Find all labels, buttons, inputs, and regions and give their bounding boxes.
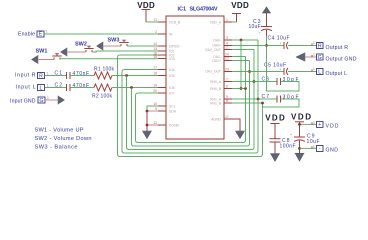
wire VDD_B to VDD [146, 21, 158, 23]
svg-text:1: 1 [47, 72, 49, 76]
wire C1 to R1 [70, 75, 94, 77]
svg-text:IO6: IO6 [169, 86, 175, 90]
wire R1 to IO5 [112, 75, 158, 77]
svg-text:2: 2 [155, 30, 157, 34]
wire Input R to C1 [45, 75, 67, 77]
svg-text:SCL: SCL [169, 105, 176, 109]
svg-text:C7: C7 [262, 94, 270, 100]
wire SCL corner [147, 106, 158, 111]
svg-text:17: 17 [225, 115, 229, 119]
svg-text:Output R: Output R [326, 45, 349, 51]
ground AGND arrow [235, 131, 245, 139]
svg-text:G: G [318, 55, 322, 61]
svg-text:VDD: VDD [137, 1, 155, 10]
svg-text:+: + [280, 42, 282, 46]
resistor R1 100k [94, 67, 115, 80]
IC1 right pin names [205, 21, 222, 122]
svg-text:1: 1 [47, 84, 49, 88]
svg-text:OA1+: OA1+ [212, 59, 221, 63]
svg-text:VDD: VDD [291, 113, 311, 122]
wire vertical OA0+ down [253, 50, 255, 82]
svg-text:OA0_OUT: OA0_OUT [205, 48, 221, 52]
svg-text:E: E [39, 32, 43, 38]
svg-text:Input R: Input R [15, 73, 36, 79]
wire SDA to ground column [147, 110, 158, 112]
node C6 row junction [253, 80, 256, 83]
wire nest 1 (outer): IO2 around bottom to RH1_B [118, 55, 263, 157]
svg-text:OA1_OUT: OA1_OUT [205, 70, 221, 74]
power VDD (top right, at VDD_A) [231, 1, 249, 22]
svg-text:R: R [318, 43, 322, 49]
wire nest 4: R2 node around bottom to C5 row [132, 72, 250, 147]
wire nest 2: IO4 around bottom to RH1_A column [122, 70, 258, 154]
svg-text:470nF: 470nF [73, 71, 90, 77]
capacitor C1 470nF [55, 71, 90, 80]
svg-text:3: 3 [226, 36, 228, 40]
ground arrow above C3 (up) [262, 7, 271, 13]
wire Output GND [305, 56, 317, 58]
svg-text:18: 18 [153, 72, 157, 76]
wire SW1 to IO3 [60, 58, 158, 60]
svg-text:1: 1 [226, 18, 228, 22]
svg-text:Enable: Enable [18, 32, 35, 38]
wire VDD_A to VDD [232, 21, 237, 23]
node C3/OA0_OUT junction [265, 44, 268, 47]
IC1 left pin stubs [158, 22, 166, 125]
legend notes [35, 128, 92, 151]
svg-text:1: 1 [313, 67, 315, 71]
svg-text:8: 8 [226, 99, 228, 103]
svg-text:7: 7 [226, 78, 228, 82]
wire C8 to ground [274, 142, 276, 154]
power VDD (C9 rail) [291, 113, 311, 138]
node SDA junction [146, 110, 149, 113]
svg-text:R1 100k: R1 100k [94, 67, 115, 73]
svg-text:C6: C6 [262, 77, 270, 83]
svg-text:SLG47004V: SLG47004V [190, 7, 218, 13]
wire SW3 to GPIO0 [127, 45, 158, 47]
node RH0_B junction [240, 87, 243, 90]
IC1 left pin numbers [153, 18, 157, 125]
svg-text:R: R [39, 73, 43, 79]
svg-text:20: 20 [153, 89, 157, 93]
resistor R2 100k [92, 84, 113, 100]
svg-text:SW3 - Balance: SW3 - Balance [35, 145, 78, 151]
svg-text:2: 2 [226, 46, 228, 50]
wire OA1- row [232, 56, 246, 58]
wire to GND port [300, 147, 317, 149]
port VDD [313, 120, 339, 129]
wire C4 to Output R [288, 45, 317, 47]
svg-text:R2 100k: R2 100k [92, 94, 113, 100]
svg-text:C4 10uF: C4 10uF [268, 35, 290, 41]
switch SW1 [32, 49, 62, 64]
svg-text:IC1: IC1 [178, 7, 187, 13]
wire Enable to IN [44, 33, 158, 35]
svg-text:1: 1 [313, 53, 315, 57]
port Output L [313, 67, 347, 77]
wire vertical OA1+ down to nest 4 [249, 61, 251, 72]
ground DGND arrow [142, 131, 152, 139]
svg-text:SDA: SDA [169, 110, 177, 114]
IC1 left pin names [169, 21, 181, 128]
wire RH0_A row to C6 [232, 81, 277, 83]
op-amp/IC IC1 body SLG47004V [166, 7, 224, 140]
svg-text:GND: GND [326, 148, 339, 154]
svg-text:VDD_B: VDD_B [169, 21, 181, 25]
port Output R [313, 41, 348, 51]
wire C6 feedback loop [267, 46, 300, 92]
svg-text:C5 10uF: C5 10uF [264, 63, 286, 69]
svg-text:OA0+: OA0+ [212, 44, 221, 48]
svg-text:G: G [39, 98, 43, 104]
wire R2 to IO6 [112, 87, 158, 89]
capacitor C2 470nF [55, 83, 90, 92]
switch SW2 [61, 42, 94, 57]
svg-text:SW1 - Volume UP: SW1 - Volume UP [35, 128, 84, 134]
node GND rail junction [298, 147, 301, 150]
svg-text:9: 9 [155, 107, 157, 111]
wire C9 to GND [299, 140, 301, 153]
wire vertical OA0- to nest 2 [257, 40, 259, 99]
port Output GND [313, 53, 357, 63]
svg-text:SW1: SW1 [36, 49, 48, 55]
wire OA0_OUT to C4 [232, 45, 284, 47]
wire OA0- row [232, 39, 258, 41]
svg-text:+: + [318, 122, 321, 128]
wire to VDD port [300, 123, 317, 125]
IC1 right pin stubs [224, 22, 232, 119]
capacitor C5 10uF [264, 63, 288, 76]
svg-text:L: L [318, 69, 321, 75]
port Enable [18, 30, 48, 38]
power VDD (top left, at VDD_B) [137, 1, 155, 22]
wire AGND to ground [232, 119, 240, 131]
capacitor C3 10uF [249, 13, 273, 46]
node R1/IO5 junction [125, 74, 128, 77]
node RH0_B nest junction [244, 87, 247, 90]
node DGND junction [146, 124, 149, 127]
svg-text:1: 1 [47, 96, 49, 100]
svg-text:+: + [259, 31, 261, 35]
svg-text:14: 14 [153, 42, 157, 46]
wire C7 feedback loop [263, 99, 300, 107]
svg-text:SW2 - Volume Down: SW2 - Volume Down [35, 136, 92, 142]
ground arrow Output GND (left pointing) [296, 53, 305, 62]
svg-text:C1: C1 [55, 71, 63, 77]
svg-text:VDD: VDD [231, 1, 249, 10]
svg-text:22: 22 [225, 57, 229, 61]
svg-text:IO3: IO3 [169, 57, 175, 61]
node RH1_A junction [257, 98, 260, 101]
port Input R [15, 72, 49, 80]
wire OA0+ row [232, 49, 254, 51]
port Input L [16, 84, 49, 92]
svg-text:13: 13 [153, 47, 157, 51]
wire SW2 to IO1 [92, 51, 158, 52]
svg-text:Output L: Output L [326, 71, 348, 77]
node VDD rail junction [298, 123, 301, 126]
wire nest 5 (inner): IO7 around bottom to RH0_B [136, 89, 246, 143]
switch SW3 [97, 38, 129, 51]
svg-text:SW2: SW2 [75, 42, 87, 48]
wire RH1_B row [232, 102, 263, 104]
capacitor C8 100nF [270, 138, 296, 150]
wire DGND to ground column [147, 124, 158, 126]
svg-text:1: 1 [313, 144, 315, 148]
wire C2 to R2 [70, 87, 94, 89]
svg-text:11: 11 [153, 18, 157, 22]
svg-text:VDD: VDD [265, 114, 285, 123]
capacitor C6 30pF [262, 77, 299, 86]
svg-text:30pF: 30pF [283, 95, 299, 101]
svg-text:VDD_A: VDD_A [210, 21, 222, 25]
svg-text:SW3: SW3 [108, 38, 120, 44]
wire Input GND to arrow [45, 99, 58, 101]
svg-text:L: L [40, 85, 43, 91]
node OA0- junction [240, 39, 243, 42]
capacitor C4 10uF [268, 35, 290, 49]
svg-text:RH0_B: RH0_B [210, 87, 222, 91]
svg-text:+: + [280, 68, 282, 72]
svg-text:C2: C2 [55, 83, 63, 89]
port GND [313, 144, 338, 153]
svg-text:100nF: 100nF [280, 144, 296, 150]
svg-text:+: + [290, 133, 292, 137]
svg-text:1: 1 [313, 120, 315, 124]
ground arrow below C8 [270, 154, 280, 162]
power VDD (C8 rail) [265, 114, 285, 139]
svg-text:10: 10 [153, 102, 157, 106]
wire C5 to Output L [288, 71, 317, 73]
svg-text:470nF: 470nF [73, 83, 90, 89]
svg-text:30pF: 30pF [283, 77, 299, 83]
svg-text:6: 6 [226, 85, 228, 89]
svg-text:1: 1 [46, 30, 48, 34]
ground arrow below C9 [295, 153, 305, 161]
svg-text:GPIO0: GPIO0 [169, 45, 179, 49]
svg-text:19: 19 [153, 84, 157, 88]
svg-text:1: 1 [313, 41, 315, 45]
svg-text:IO5: IO5 [169, 74, 175, 78]
svg-text:RH0_A: RH0_A [210, 80, 222, 84]
svg-text:OA0-: OA0- [213, 39, 221, 43]
svg-text:IO7: IO7 [169, 92, 175, 96]
svg-text:-: - [319, 146, 321, 152]
wire vertical OA1- down to nest 5 [245, 57, 247, 89]
node RH1_B/C7 junction [261, 102, 264, 105]
svg-text:Input GND: Input GND [10, 98, 36, 104]
svg-text:23: 23 [225, 68, 229, 72]
svg-text:RH1_B: RH1_B [210, 102, 222, 106]
wire ground column down [146, 111, 148, 131]
wire nest 3: R1 node around bottom to C6 row [127, 76, 255, 150]
wire RH0_B row [232, 88, 246, 90]
svg-text:IO4: IO4 [169, 68, 175, 72]
node C5 row junction [248, 70, 251, 73]
svg-text:IN: IN [169, 33, 173, 37]
ground arrow (left) [37, 55, 39, 64]
svg-text:AGND: AGND [211, 118, 221, 122]
svg-text:VDD: VDD [326, 123, 339, 129]
svg-text:DGND: DGND [169, 124, 180, 128]
svg-text:Output GND: Output GND [326, 57, 357, 63]
wire Input L to C2 [45, 87, 67, 89]
svg-text:Input L: Input L [16, 85, 36, 91]
IC1 right pin numbers [225, 18, 229, 119]
ground arrow (right pointing) [58, 96, 65, 105]
svg-text:17: 17 [153, 66, 157, 70]
svg-text:12: 12 [153, 121, 157, 125]
capacitor C7 30pF [262, 94, 299, 103]
node R2/IO6 junction [130, 86, 133, 89]
svg-text:10uF: 10uF [249, 24, 261, 30]
capacitor C9 10uF [290, 133, 320, 145]
wire vertical OA0- to RH0_B row [240, 40, 242, 89]
wire RH1_A row to C7 [232, 98, 277, 100]
port Input GND [10, 96, 49, 104]
wire OA1_OUT to C5 [232, 71, 284, 73]
wire OA1+ row [232, 60, 250, 62]
